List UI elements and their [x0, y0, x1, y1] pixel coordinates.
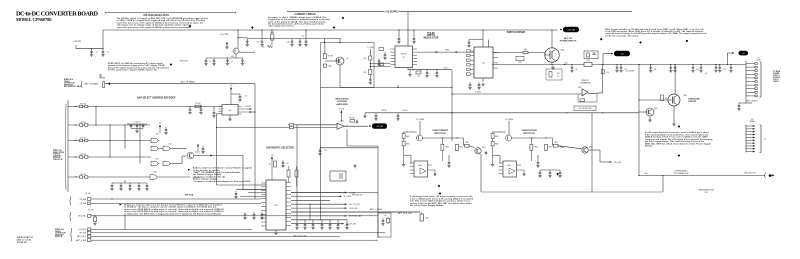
junction bank C312	[719, 64, 720, 65]
diode CR5	[516, 57, 524, 65]
pin U12 left 4	[261, 194, 266, 196]
bracket bottom rows	[70, 228, 73, 242]
connector J2 pin 3	[746, 131, 755, 133]
resistor R30	[601, 70, 609, 74]
net pill +5V B	[739, 51, 749, 56]
svg-text:U6B: U6B	[154, 172, 157, 174]
junction rail r1	[412, 69, 413, 70]
wire row A3 to oscillator	[88, 106, 222, 108]
label C1	[96, 52, 98, 54]
capacitor C28	[468, 82, 471, 90]
capacitor bank C311	[714, 65, 717, 73]
junction bp link	[124, 215, 125, 216]
note paragraph overload top right	[605, 28, 707, 38]
wire low crossover	[365, 112, 639, 114]
svg-text:C70: C70	[286, 163, 289, 165]
junction box top a	[324, 42, 325, 43]
svg-text:the entire Power Supply Module: the entire Power Supply Module.	[410, 204, 444, 207]
svg-text:C30: C30	[417, 76, 420, 78]
label L601 tap	[564, 62, 567, 64]
capacitor C19b	[246, 39, 249, 47]
junction row A1	[109, 140, 110, 141]
note paragraph diagnostic data	[124, 204, 224, 216]
wire ov caps rail	[540, 169, 560, 171]
svg-text:CONTROL: CONTROL	[53, 155, 61, 157]
wire U12 out 9	[291, 223, 342, 225]
input transistor OVERCURRENT	[417, 135, 423, 141]
diagnostic selector IC U12	[266, 180, 286, 230]
svg-text:as SGA1 data. The MOSI data is: as SGA1 data. The MOSI data is diagnosti…	[124, 212, 222, 215]
label PD 4.7K	[88, 210, 94, 212]
wire crossover drop x592	[591, 113, 593, 192]
connector J2 pin 1	[746, 125, 755, 127]
wire base row OVERCURRENT	[404, 131, 417, 133]
svg-text:L600 CROSSOVER: L600 CROSSOVER	[578, 108, 592, 110]
arrow Q3 out	[210, 155, 212, 157]
pin U12 right 8	[286, 209, 291, 211]
wire to output Q OVERCURRENT	[463, 138, 465, 146]
svg-text:6A P-CH: 6A P-CH	[564, 37, 573, 40]
capacitor C24	[383, 52, 386, 60]
marker diamond top right a	[600, 38, 603, 41]
feedback loop comparator	[578, 94, 597, 102]
wire R613 out OVERVOLTAGE	[558, 146, 564, 148]
junction box top b	[339, 42, 340, 43]
pin U2 left 6	[391, 64, 396, 66]
svg-text:L_SYNC: L_SYNC	[475, 91, 482, 93]
wire U3 gnd stub	[482, 78, 484, 82]
logic gate U6A	[163, 161, 172, 166]
capacitor C22	[397, 36, 400, 44]
wire bus left drop	[102, 30, 104, 49]
svg-text:MOD_SEL_RET line which shuts d: MOD_SEL_RET line which shuts down the en…	[645, 142, 711, 145]
svg-text:R612: R612	[549, 147, 553, 149]
svg-text:120 kHz: 120 kHz	[245, 106, 251, 108]
pin U12 left 7	[261, 205, 266, 207]
svg-text:U4: U4	[229, 110, 231, 112]
svg-text:U2: U2	[403, 57, 405, 59]
svg-text:+5V: +5V	[751, 119, 754, 121]
pin U12 right 6	[286, 201, 291, 203]
capacitor bank C35	[619, 65, 622, 73]
resistor R50	[661, 95, 668, 101]
label P1	[758, 58, 760, 60]
svg-text:R608: R608	[495, 136, 499, 138]
resistor pair row A3	[68, 104, 88, 108]
svg-text:CR5: CR5	[518, 62, 521, 64]
capacitor C13	[199, 107, 202, 115]
junction L_SYNC x452	[451, 93, 452, 94]
wire loop down OVERVOLTAGE	[499, 155, 501, 163]
svg-text:REGULATED: REGULATED	[336, 98, 349, 101]
svg-text:+5V: +5V	[230, 85, 233, 87]
label net +5_GND	[349, 192, 356, 194]
pin U2 right 3	[413, 54, 418, 56]
wire column j2	[109, 124, 111, 157]
label C36	[624, 69, 627, 71]
svg-text:C1: C1	[96, 52, 98, 54]
capacitor row C80	[295, 222, 298, 230]
wire comparator out	[588, 93, 603, 94]
svg-text:MODULE: MODULE	[55, 236, 62, 238]
wire Q611 down	[480, 154, 482, 192]
capacitor C4	[241, 58, 244, 66]
capacitor C12 gates row	[128, 183, 131, 191]
wire U12 out 5	[291, 207, 345, 209]
input row BP_SGB	[80, 231, 385, 234]
junction rail r4	[436, 69, 437, 70]
junction crossover b	[602, 112, 603, 113]
document number	[17, 237, 34, 244]
svg-text:+5V: +5V	[159, 123, 162, 125]
logic gate U5B	[151, 146, 160, 151]
section header SWITCH DRIVER	[507, 32, 526, 34]
resistor R26	[379, 48, 384, 51]
junction bp axb	[111, 198, 112, 199]
ground IC right OVERVOLTAGE	[522, 170, 525, 176]
wire ref column	[369, 49, 371, 77]
junction pwm a	[398, 29, 399, 30]
junction Q3 route	[0, 0, 1, 1]
wire overload feed	[674, 65, 676, 94]
resistor R6 column	[270, 30, 274, 46]
logic gate U5C	[163, 146, 172, 151]
svg-text:TX5_TXL_RX5: TX5_TXL_RX5	[349, 204, 360, 206]
connector J2 shell	[760, 125, 762, 153]
junction bank C311	[715, 64, 716, 65]
label MOD_SEL_RET	[744, 173, 756, 175]
label C33	[575, 69, 578, 71]
pin U12 left 12	[261, 225, 266, 227]
junction Q1 source	[551, 64, 552, 65]
capacitor C29	[477, 82, 480, 90]
wire bp vertical link	[124, 216, 126, 230]
wire R28 vert	[324, 43, 326, 54]
capacitor C19	[260, 39, 263, 47]
resistor R40	[523, 49, 528, 54]
wire Q2 collector tap	[336, 60, 340, 62]
wire Q1 gate bend	[544, 53, 546, 56]
wire into U12 c	[240, 195, 266, 197]
label PD 5M note	[100, 74, 106, 79]
input transistor OVERVOLTAGE	[506, 135, 512, 141]
wire amp to bottom box b	[321, 147, 379, 149]
wire Q6 base	[639, 111, 646, 113]
svg-text:U201: U201	[231, 56, 235, 58]
section overline current limiter 2	[399, 10, 632, 12]
label +5V SENSE tag	[626, 71, 635, 73]
wire U4 to feedback	[250, 111, 255, 113]
marker diagnostic note	[188, 169, 190, 171]
junction rail r2	[420, 69, 421, 70]
driver IC U3	[474, 47, 493, 78]
label +5V SENSE OVERVOLTAGE	[505, 119, 514, 121]
wire Q1 drain	[551, 30, 553, 48]
input row BP_AXB	[80, 198, 261, 201]
svg-text:R40: R40	[524, 49, 527, 51]
wire bottom box right	[662, 176, 664, 193]
svg-text:EN: EN	[75, 177, 77, 179]
capacitor C20	[369, 77, 372, 85]
junction mod sel	[94, 215, 95, 216]
wire overload down	[673, 107, 675, 125]
resistor R612 OVERVOLTAGE	[545, 144, 553, 150]
svg-text:+5V_SENSE: +5V_SENSE	[626, 71, 635, 73]
capacitor C2	[101, 49, 104, 57]
junction rail r3	[426, 69, 427, 70]
connector J2 pin 7	[746, 142, 755, 144]
capacitor bank C37	[669, 65, 672, 73]
wire cd1 stub OVERVOLTAGE	[537, 155, 539, 160]
capacitor C15	[231, 94, 247, 102]
arrow U12 out 9	[342, 223, 344, 225]
power cap U3	[467, 40, 483, 48]
svg-text:+5V_SENSE: +5V_SENSE	[416, 119, 425, 121]
pin U2 right 5	[413, 60, 418, 62]
wire drop x310	[309, 204, 311, 220]
wire cap stub C80	[296, 220, 298, 222]
svg-text:DAP SELECT ADDRESS DECODER: DAP SELECT ADDRESS DECODER	[137, 96, 176, 99]
junction rail a	[261, 29, 262, 30]
junction bank C39	[692, 64, 693, 65]
wire base row OVERVOLTAGE	[493, 131, 506, 133]
junction amp out	[346, 125, 347, 126]
wire U201 branch	[238, 37, 247, 39]
svg-text:C19: C19	[257, 42, 260, 44]
resistor R34	[580, 99, 585, 102]
svg-text:C74: C74	[324, 150, 327, 152]
wire U2 power	[407, 30, 409, 46]
power +5V U4	[230, 85, 233, 105]
connector P1 pin 6	[746, 81, 757, 83]
svg-text:GND_CONTROL: GND_CONTROL	[746, 101, 758, 103]
ground U12	[274, 233, 277, 235]
wire rail2	[247, 38, 322, 40]
junction bus R6	[271, 29, 272, 30]
resistor R90 pulldown	[93, 216, 96, 225]
bottom test box	[378, 213, 391, 237]
section header VOLTAGE REGULATOR	[143, 14, 169, 17]
wire rail corner down	[451, 70, 453, 141]
wire U12 out 4	[291, 203, 345, 205]
junction C13	[200, 106, 201, 107]
op-amp U7B	[578, 87, 588, 96]
capacitor bank C310	[699, 65, 702, 73]
arrow U12 out 2	[340, 196, 342, 198]
label C16	[287, 42, 290, 44]
wire pill3 lead	[727, 52, 733, 54]
connector P1 shell	[760, 62, 762, 97]
capacitor C71	[243, 212, 246, 220]
ground U3	[481, 84, 484, 86]
capacitor C84	[374, 113, 377, 121]
label BATT_ON_ENABLE right	[181, 81, 195, 84]
svg-text:N_CONN: N_CONN	[344, 196, 352, 198]
inductor L600	[584, 60, 592, 66]
wire U2 bottom rail	[408, 69, 452, 71]
wire U3 power	[482, 30, 484, 47]
label C17	[302, 36, 305, 38]
pin U3 right 1	[493, 52, 498, 54]
wire Q5 gate	[639, 99, 668, 101]
label +5V SENSE J2	[751, 119, 754, 121]
wire sense drop OVERCURRENT	[419, 121, 421, 135]
wire AC_GND lead	[600, 161, 610, 163]
svg-text:P1: P1	[758, 58, 760, 60]
svg-text:4.7K: 4.7K	[606, 72, 609, 74]
capacitor row C84	[328, 222, 331, 230]
wire cap stub C81	[304, 220, 306, 222]
connector J2	[745, 125, 747, 153]
transistor Q2	[336, 57, 348, 65]
connector J2 pin 5	[746, 137, 755, 139]
label net TX5_TXL_RX5	[349, 204, 360, 206]
wire U12 out 8	[291, 219, 330, 221]
capacitor bank C39	[691, 65, 694, 73]
net pill +5V REF	[372, 123, 387, 128]
svg-text:DETECTOR: DETECTOR	[523, 133, 535, 135]
marker diamond shutdown	[439, 192, 442, 195]
wire row to box	[374, 239, 378, 241]
wire osc to amp vert	[216, 114, 218, 128]
resistor R23	[363, 69, 371, 74]
label GND CONTROL	[746, 101, 758, 103]
boxed note crossover	[574, 106, 596, 111]
section header CURRENT LIMITER	[294, 14, 315, 16]
label net TX5_OR_RX5	[346, 224, 356, 226]
capacitor C6	[212, 58, 215, 66]
resistor R609 OVERVOLTAGE	[491, 141, 498, 146]
arrow U2 out a	[436, 51, 438, 53]
current limiter loop	[321, 43, 375, 88]
wire pill2 lead	[603, 53, 612, 55]
arrow U12 out 5	[345, 207, 347, 209]
arrow +5V REF	[369, 125, 371, 127]
svg-text:+5V REF: +5V REF	[376, 126, 384, 128]
wire ladder vertical bus	[67, 100, 69, 192]
bracket batt_on	[80, 81, 83, 88]
wire row EN to gate	[88, 176, 150, 178]
label U5A	[156, 133, 159, 136]
connector P1 pin 1	[746, 63, 757, 65]
capacitor C10 gates row	[110, 183, 113, 191]
svg-text:C15: C15	[245, 96, 248, 98]
wire box stub b	[339, 39, 341, 43]
section header DIAGNOSTIC SELECTOR	[266, 146, 294, 149]
wire pill3 drop	[726, 53, 728, 65]
resistor R609 OVERCURRENT	[402, 141, 409, 146]
wire +5V supply drop	[407, 11, 409, 30]
power +5V amp	[338, 109, 344, 122]
svg-text:L601: L601	[564, 62, 567, 64]
wire collector row OVERCURRENT	[423, 137, 464, 139]
junction limiter rail	[397, 87, 398, 88]
capacitor Cd1 OVERVOLTAGE	[536, 160, 539, 168]
svg-text:MOD_SEL: MOD_SEL	[78, 216, 86, 218]
wire Q2 base	[325, 60, 336, 62]
note paragraph current limiter	[268, 16, 331, 28]
label net N_CONN	[344, 196, 352, 198]
wire caps row rail 2	[297, 219, 347, 221]
label C42	[705, 73, 708, 75]
pin U2 right 2	[413, 51, 418, 53]
junction Q1 drain	[551, 29, 552, 30]
label +5 REF col	[368, 47, 374, 49]
comparator IC OVERCURRENT	[410, 161, 435, 177]
pin U12 right 1	[286, 182, 291, 184]
wire pill2 drop	[602, 54, 604, 65]
junction bank C310	[700, 64, 701, 65]
label C3	[209, 61, 211, 63]
note paragraph address decode	[193, 167, 253, 183]
junction sense drop	[638, 64, 639, 65]
section header OVERVOLTAGE DETECTOR	[521, 129, 537, 135]
wire feedback to U12	[255, 184, 266, 186]
svg-text:Q606: Q606	[683, 95, 687, 97]
label C19	[257, 42, 260, 44]
bracket bp rows	[69, 197, 72, 206]
wire rail2 drop b	[305, 30, 307, 39]
wire U6B out	[159, 176, 190, 178]
junction Q5 gate	[638, 99, 639, 100]
capacitor C55	[356, 120, 359, 124]
junction crossover a	[566, 112, 567, 113]
capacitor C13 gates row	[137, 183, 140, 191]
label +14V PWR	[73, 41, 82, 43]
svg-text:C16: C16	[287, 42, 290, 44]
svg-text:NOTE 8: NOTE 8	[100, 78, 106, 80]
label BATT_UD_A_GND	[398, 212, 412, 215]
wire U3 power b	[488, 40, 490, 48]
junction x320 cross	[320, 208, 321, 209]
wire column j4	[139, 124, 141, 164]
pin U2 right 6	[413, 64, 418, 66]
svg-text:MODULE: MODULE	[773, 77, 780, 79]
wire feedback right vertical	[254, 84, 256, 199]
svg-text:C85 10n: C85 10n	[402, 110, 407, 112]
capacitor C18	[304, 39, 307, 47]
svg-text:CURRENT LIMITER: CURRENT LIMITER	[294, 14, 315, 16]
transistor Q3	[187, 152, 199, 159]
wire sense drop x639	[638, 65, 640, 113]
arrow U2 out b	[456, 51, 458, 53]
junction bottom box	[662, 175, 663, 176]
pin U12 left 10	[261, 217, 266, 219]
wire ref tap 2	[370, 66, 390, 68]
svg-text:B04: B04	[645, 173, 648, 175]
resistor pair row A1	[68, 138, 88, 142]
ground IC right OVERCURRENT	[433, 170, 436, 176]
pin U12 right 4	[286, 193, 291, 195]
resistor R610 OVERVOLTAGE	[530, 138, 538, 161]
capacitor row C86	[345, 222, 348, 230]
label C84	[381, 110, 386, 112]
pin U12 right 12	[286, 224, 291, 226]
wire Q2 emitter	[339, 65, 341, 88]
label BATT_ON_ENABLE	[85, 82, 99, 85]
junction osc amp	[216, 127, 217, 128]
label U5C	[168, 144, 172, 146]
svg-text:+5V SUPPLY: +5V SUPPLY	[385, 12, 399, 14]
svg-text:Q612: Q612	[589, 147, 593, 149]
capacitor C5	[204, 58, 207, 66]
capacitor C12	[188, 107, 191, 115]
connector P1 pin 3	[746, 70, 757, 72]
label BATT_VD_A_GND	[293, 235, 307, 238]
svg-text:R6 8K: R6 8K	[270, 32, 274, 34]
wire row A2	[88, 124, 150, 126]
arrow U4 out2	[250, 111, 252, 113]
